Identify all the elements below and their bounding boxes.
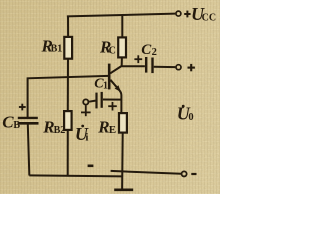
wire base node horizontal and CB drop <box>28 76 109 118</box>
svg-text:C: C <box>109 46 116 57</box>
wire RE bottom to ground bar <box>121 133 124 190</box>
svg-text:i: i <box>85 132 88 144</box>
plus sign supply polarity <box>184 11 190 18</box>
wire bottom ground rail <box>29 175 122 176</box>
plus sign C1 polarity <box>108 102 117 111</box>
capacitor C1 right plate <box>101 92 103 108</box>
svg-text:C: C <box>2 113 14 132</box>
svg-text:0: 0 <box>188 112 193 123</box>
resistor RB1 <box>64 37 72 59</box>
resistor RE <box>119 113 127 133</box>
node input terminal circle <box>83 99 88 104</box>
plus sign CB polarity <box>19 104 26 111</box>
svg-text:B1: B1 <box>51 44 63 55</box>
label RB1 <box>41 36 63 55</box>
svg-text:CC: CC <box>202 13 216 24</box>
label C2 <box>141 42 157 58</box>
label Ui <box>75 124 89 144</box>
label CB <box>2 113 20 132</box>
transistor Q1 emitter arrow <box>115 85 121 92</box>
transistor Q1 emitter lead <box>110 80 121 113</box>
wire C2 to output terminal <box>154 66 176 68</box>
minus sign output bottom <box>191 173 196 175</box>
label RB2 <box>42 117 65 136</box>
capacitor C1 left plate <box>95 93 97 109</box>
wire CB bottom to ground rail <box>28 124 30 175</box>
transistor Q1 collector lead <box>110 57 122 73</box>
wire input terminal to C1 <box>89 101 95 102</box>
wire RB2 bottom to ground rail <box>67 130 69 177</box>
wire output bottom to terminal <box>111 171 182 174</box>
node supply terminal circle <box>176 11 181 16</box>
wire RC branch from rail to resistor <box>121 15 123 38</box>
svg-text:E: E <box>109 124 116 136</box>
wire RB1 branch from rail to resistor <box>67 16 69 38</box>
capacitor C2 left plate <box>145 57 147 73</box>
plus sign C2 polarity <box>134 55 142 63</box>
node output bottom terminal circle <box>182 171 187 176</box>
minus sign input polarity <box>88 165 94 168</box>
wire RB1 bottom to RB2 top through base node <box>67 59 69 112</box>
svg-text:2: 2 <box>152 47 157 58</box>
wire C1 to emitter node <box>103 99 122 101</box>
transistor Q1 base bar <box>108 64 111 90</box>
resistor RB2 <box>64 111 72 130</box>
label RE <box>97 118 116 137</box>
plus sign input polarity under terminal <box>81 105 91 116</box>
label +UCC <box>191 4 216 24</box>
svg-text:1: 1 <box>103 81 108 92</box>
capacitor CB bottom plate <box>18 122 38 125</box>
resistor RC <box>118 37 126 57</box>
label C1 <box>94 77 108 92</box>
wire top supply rail <box>67 14 175 17</box>
label Uo <box>177 103 194 123</box>
svg-text:B2: B2 <box>54 125 66 136</box>
wire collector node to C2 <box>122 65 145 67</box>
capacitor CB top plate <box>18 117 38 119</box>
ground bar <box>114 189 133 192</box>
label RC <box>99 38 116 57</box>
plus sign output polarity <box>188 64 195 71</box>
svg-text:B: B <box>13 120 20 131</box>
node output terminal circle <box>176 65 181 70</box>
capacitor C2 right plate <box>151 58 153 74</box>
